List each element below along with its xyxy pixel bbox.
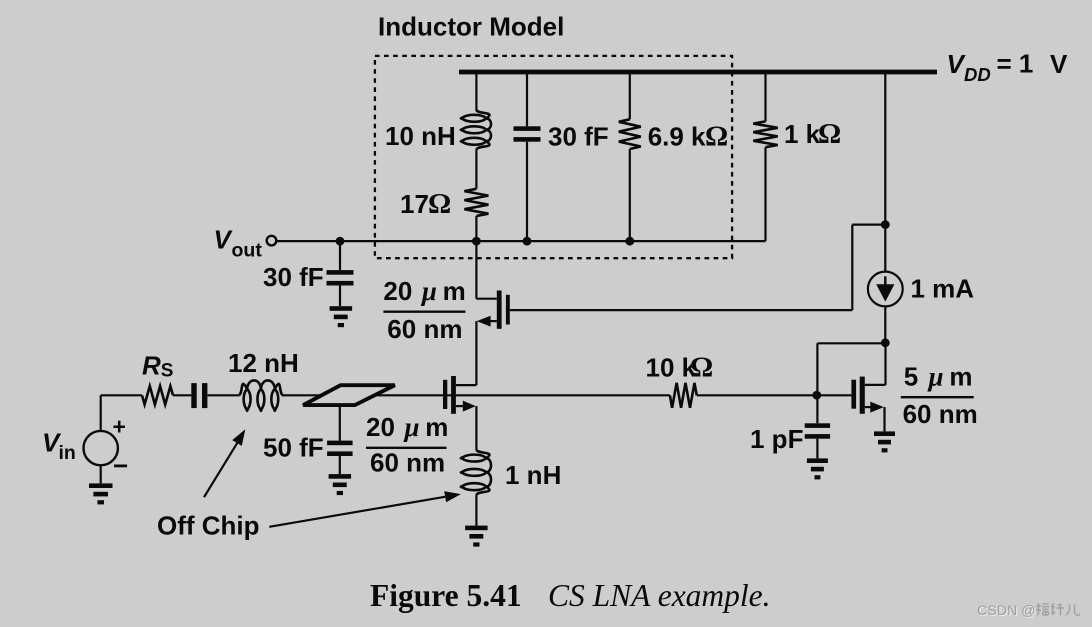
- svg-text:30 fF: 30 fF: [263, 262, 324, 292]
- svg-text:60 nm: 60 nm: [903, 399, 978, 429]
- svg-text:m: m: [949, 362, 972, 392]
- svg-text:μ: μ: [927, 362, 944, 392]
- svg-text:out: out: [232, 239, 263, 261]
- svg-text:6.9 k: 6.9 k: [648, 121, 706, 151]
- svg-text:S: S: [161, 361, 174, 382]
- svg-text:Ω: Ω: [428, 188, 451, 220]
- svg-text:1 mA: 1 mA: [911, 274, 975, 304]
- svg-text:Ω: Ω: [690, 351, 713, 383]
- svg-text:+: +: [113, 414, 126, 440]
- svg-text:60 nm: 60 nm: [387, 314, 462, 344]
- svg-text:Inductor Model: Inductor Model: [378, 11, 564, 41]
- svg-text:Ω: Ω: [818, 118, 841, 150]
- svg-text:10 nH: 10 nH: [385, 121, 456, 151]
- svg-text:CS LNA example.: CS LNA example.: [548, 578, 771, 613]
- svg-text:1 pF: 1 pF: [750, 424, 803, 454]
- svg-text:μ: μ: [403, 412, 420, 442]
- svg-text:μ: μ: [420, 276, 437, 306]
- svg-text:CSDN @: CSDN @: [977, 603, 1036, 619]
- svg-text:5: 5: [904, 362, 918, 392]
- svg-text:1 nH: 1 nH: [505, 460, 561, 490]
- svg-text:DD: DD: [964, 64, 991, 85]
- svg-text:= 1: = 1: [997, 49, 1034, 79]
- svg-text:−: −: [113, 451, 128, 481]
- svg-text:12 nH: 12 nH: [228, 348, 299, 378]
- svg-text:Off Chip: Off Chip: [157, 510, 260, 540]
- svg-text:1 k: 1 k: [784, 119, 821, 149]
- svg-text:Ω: Ω: [705, 120, 728, 152]
- svg-text:20: 20: [366, 412, 395, 442]
- svg-text:30 fF: 30 fF: [548, 121, 609, 151]
- svg-text:V: V: [1050, 49, 1068, 79]
- svg-text:m: m: [425, 412, 448, 442]
- svg-text:50 fF: 50 fF: [263, 433, 324, 463]
- svg-text:60 nm: 60 nm: [370, 448, 445, 478]
- svg-text:Figure 5.41: Figure 5.41: [370, 578, 522, 613]
- svg-text:m: m: [443, 276, 466, 306]
- svg-text:V: V: [214, 225, 234, 255]
- svg-text:20: 20: [383, 276, 412, 306]
- svg-text:17: 17: [400, 189, 429, 219]
- svg-text:R: R: [142, 351, 161, 381]
- svg-text:10 k: 10 k: [646, 352, 697, 382]
- svg-text:in: in: [59, 442, 76, 464]
